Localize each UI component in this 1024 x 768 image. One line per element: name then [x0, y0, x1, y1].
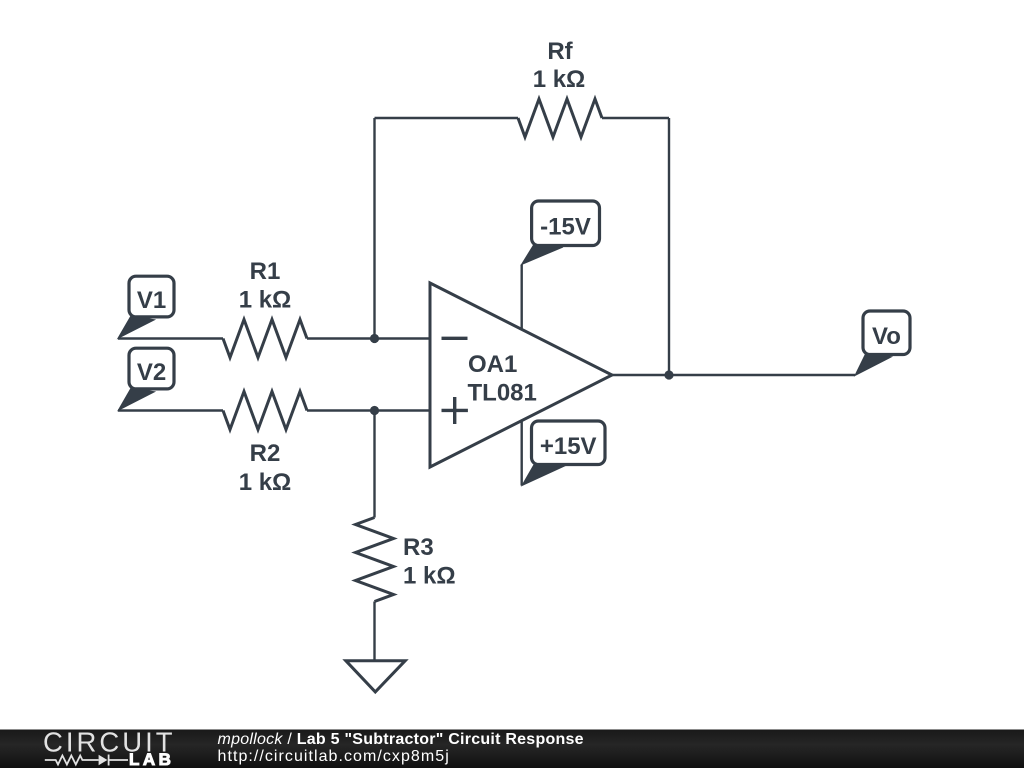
CircuitLab logo resistor-diode symbol — [45, 755, 128, 766]
svg-text:OA1: OA1 — [468, 351, 517, 378]
resistor R1 — [223, 320, 307, 358]
wire: feedback loop top left horizontal — [375, 117, 519, 119]
svg-text:+15V: +15V — [540, 433, 597, 460]
wire: R1 to inverting input — [307, 337, 430, 339]
power flag -15V — [522, 201, 600, 265]
svg-text:Rf: Rf — [547, 38, 573, 65]
svg-text:LAB: LAB — [129, 750, 174, 768]
wire: R2 to non-inverting input — [307, 409, 430, 411]
wire: V1 to R1 — [118, 337, 223, 339]
svg-text:V2: V2 — [137, 359, 166, 386]
power flag +15V — [522, 421, 605, 486]
junction: inverting input node — [370, 334, 379, 343]
op-amp OA1 inverting pin marker — [442, 337, 468, 340]
wire: feedback loop left vertical (node A up from inverting input) — [373, 118, 375, 339]
op-amp OA1 — [430, 283, 612, 467]
wire: V- supply pin of OA1 — [521, 265, 523, 331]
svg-text:1 kΩ: 1 kΩ — [239, 469, 292, 496]
svg-text:1 kΩ: 1 kΩ — [403, 563, 456, 590]
net flag V2 — [118, 348, 174, 410]
wire: R3 to ground — [373, 602, 375, 661]
net flag V1 — [118, 276, 174, 338]
resistor R2 — [223, 392, 307, 430]
svg-text:http://circuitlab.com/cxp8m5j: http://circuitlab.com/cxp8m5j — [218, 748, 450, 765]
svg-text:1 kΩ: 1 kΩ — [533, 66, 586, 93]
junction: non-inverting input node — [370, 406, 379, 415]
footer bar — [0, 730, 1024, 768]
op-amp OA1 non-inverting pin marker — [442, 409, 468, 412]
svg-text:R3: R3 — [403, 534, 434, 561]
wire: feedback loop right vertical to output node — [668, 118, 670, 375]
junction: output node — [664, 370, 673, 379]
net flag Vo — [855, 311, 910, 376]
svg-text:V1: V1 — [137, 287, 166, 314]
resistor Rf — [518, 99, 602, 137]
svg-text:TL081: TL081 — [468, 380, 537, 407]
resistor R3 — [356, 518, 394, 602]
svg-text:R2: R2 — [250, 440, 281, 467]
wire: op-amp output to Vo — [612, 374, 855, 376]
wire: V2 to R2 — [118, 409, 223, 411]
ground — [346, 661, 405, 692]
svg-text:1 kΩ: 1 kΩ — [239, 287, 292, 314]
svg-text:-15V: -15V — [540, 214, 591, 241]
wire: feedback loop top right horizontal — [602, 117, 669, 119]
wire: non-inverting node down to R3 — [373, 411, 375, 518]
svg-text:R1: R1 — [250, 258, 281, 285]
svg-text:Vo: Vo — [872, 323, 901, 350]
wire: V+ supply pin of OA1 — [521, 421, 523, 486]
svg-text:mpollock / Lab 5 "Subtractor": mpollock / Lab 5 "Subtractor" Circuit Re… — [218, 731, 584, 748]
